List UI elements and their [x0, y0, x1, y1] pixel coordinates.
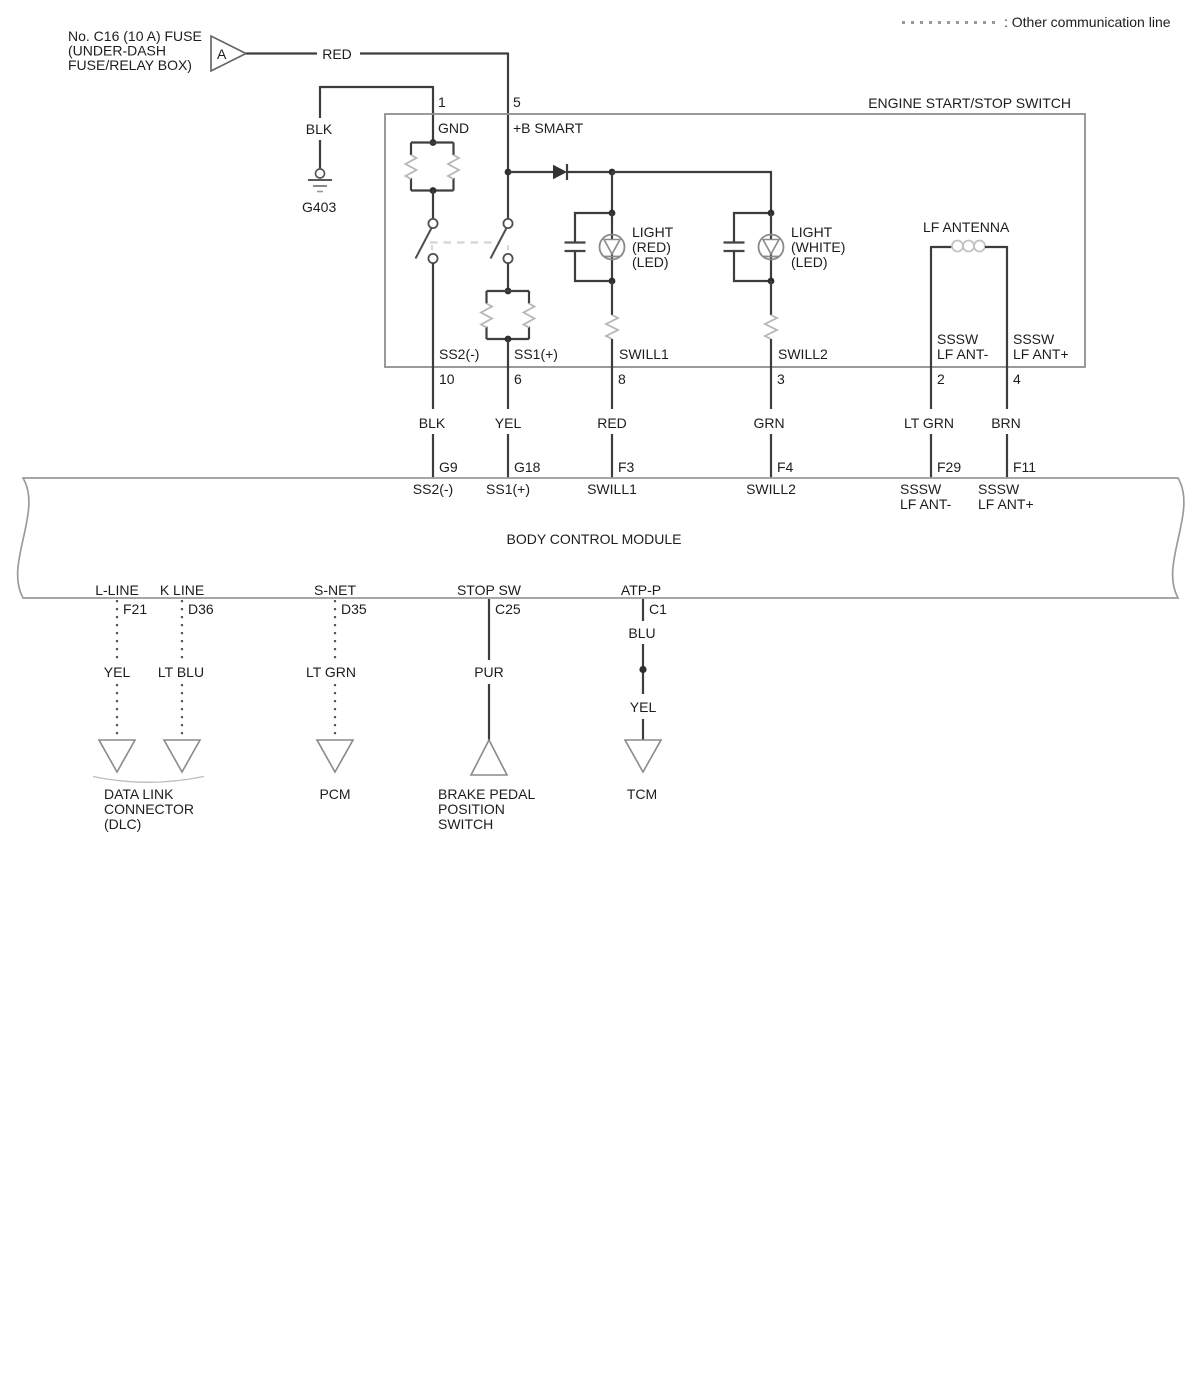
svg-text:PCM: PCM [319, 786, 350, 802]
svg-text:1: 1 [438, 94, 446, 110]
BCM terminal SSSW LF ANT+ [978, 481, 1034, 512]
wire red branch down [611, 172, 613, 213]
svg-text:F21: F21 [123, 601, 147, 617]
connector triangle to brake pedal position switch [471, 740, 507, 775]
svg-text:2: 2 [937, 371, 945, 387]
svg-text:+B SMART: +B SMART [513, 120, 584, 136]
svg-text:F4: F4 [777, 459, 794, 475]
wire BLK vertical upper [319, 86, 321, 118]
svg-text:BRN: BRN [991, 415, 1021, 431]
svg-text:A: A [217, 46, 227, 62]
svg-text:8: 8 [618, 371, 626, 387]
svg-text:F3: F3 [618, 459, 635, 475]
svg-text:G403: G403 [302, 199, 336, 215]
pin label SWILL1 8 [618, 346, 669, 387]
wire resistor pair to switch SS2 [432, 191, 434, 219]
svg-text:GRN: GRN [753, 415, 784, 431]
svg-text:L-LINE: L-LINE [95, 582, 139, 598]
svg-text:D36: D36 [188, 601, 214, 617]
inductor LF antenna coil [931, 241, 1007, 252]
wire ATP-P middle [642, 644, 644, 694]
wire ATP-P lower [642, 719, 644, 740]
svg-text:BLU: BLU [628, 625, 655, 641]
switch SS2 [416, 219, 438, 263]
dotted wire S-NET upper [334, 600, 336, 659]
wire +B to diode [508, 171, 553, 173]
svg-text:SWITCH: SWITCH [438, 816, 493, 832]
svg-text:(LED): (LED) [632, 254, 669, 270]
capacitor C-white parallel branch [724, 213, 772, 281]
svg-text:(DLC): (DLC) [104, 816, 141, 832]
svg-text:POSITION: POSITION [438, 801, 505, 817]
wire LF antenna right leg pin 4 [1006, 246, 1008, 409]
svg-text:SSSW: SSSW [978, 481, 1020, 497]
splice node on ATP-P wire [639, 666, 646, 673]
svg-text:C25: C25 [495, 601, 521, 617]
wire LT GRN lower segment [930, 434, 932, 478]
svg-text:LIGHT: LIGHT [791, 224, 833, 240]
pin label SWILL2 3 [777, 346, 828, 387]
LED light red [600, 210, 625, 285]
wire YEL lower segment [507, 434, 509, 478]
svg-text:YEL: YEL [495, 415, 522, 431]
capacitor C-red parallel branch [565, 213, 613, 281]
pin label SS1(+) 6 [514, 346, 558, 387]
wire diode to red light node [567, 171, 612, 173]
svg-text:LF ANTENNA: LF ANTENNA [923, 219, 1010, 235]
label BRAKE PEDAL POSITION SWITCH [438, 786, 535, 832]
svg-text:G18: G18 [514, 459, 541, 475]
svg-text:SWILL1: SWILL1 [619, 346, 669, 362]
wire pin 1 vertical [432, 86, 434, 142]
body control module band outline [18, 478, 1184, 598]
pin label SSSW LF ANT- 2 [937, 331, 989, 387]
svg-text:YEL: YEL [104, 664, 131, 680]
wire BLK lower segment [432, 434, 434, 478]
svg-text:5: 5 [513, 94, 521, 110]
dotted wire L-LINE upper [116, 600, 118, 659]
svg-text:D35: D35 [341, 601, 367, 617]
svg-text:K LINE: K LINE [160, 582, 204, 598]
svg-text:6: 6 [514, 371, 522, 387]
connector triangle to TCM [625, 740, 661, 772]
svg-text:LT BLU: LT BLU [158, 664, 204, 680]
wire STOP SW lower [488, 684, 490, 740]
svg-text:LIGHT: LIGHT [632, 224, 674, 240]
svg-text:DATA LINK: DATA LINK [104, 786, 174, 802]
svg-text:GND: GND [438, 120, 469, 136]
legend dotted line: other communication line [902, 21, 1001, 24]
wire switch SS1 to resistor pair R-B [507, 263, 509, 291]
svg-text:LF ANT+: LF ANT+ [1013, 346, 1069, 362]
legend text [1004, 14, 1171, 30]
svg-text:C1: C1 [649, 601, 667, 617]
dotted wire K LINE upper [181, 600, 183, 659]
connector A triangle [211, 36, 246, 71]
dotted wire S-NET lower [334, 684, 336, 740]
connector triangle to DLC (L-LINE) [99, 740, 135, 772]
dotted wire K LINE lower [181, 684, 183, 740]
svg-text:SWILL2: SWILL2 [746, 481, 796, 497]
wire RED to pin 5 drop [360, 52, 508, 54]
svg-text:RED: RED [322, 46, 352, 62]
svg-text:SWILL1: SWILL1 [587, 481, 637, 497]
engine start/stop switch enclosure [385, 95, 1085, 367]
svg-text:SS2(-): SS2(-) [439, 346, 479, 362]
resistor pair R-B (SS1 branch) [481, 288, 535, 343]
pin 5 label +B SMART [513, 94, 584, 136]
wire pin 5 vertical drop [507, 53, 509, 220]
svg-text:S-NET: S-NET [314, 582, 356, 598]
svg-text:CONNECTOR: CONNECTOR [104, 801, 194, 817]
wire BRN lower segment [1006, 434, 1008, 478]
wire ATP-P upper [642, 599, 644, 621]
wire BLK vertical lower [319, 140, 321, 169]
svg-text:YEL: YEL [630, 699, 657, 715]
LED light white [759, 210, 784, 285]
dotted wire L-LINE lower [116, 684, 118, 740]
connector triangle to DLC (K LINE) [164, 740, 200, 772]
svg-text:LT GRN: LT GRN [904, 415, 954, 431]
svg-text:3: 3 [777, 371, 785, 387]
pin 1 label GND [438, 94, 469, 136]
svg-text:SS1(+): SS1(+) [514, 346, 558, 362]
node red light branch [609, 169, 616, 176]
svg-text:BODY CONTROL MODULE: BODY CONTROL MODULE [506, 531, 681, 547]
svg-text:SSSW: SSSW [900, 481, 942, 497]
label DATA LINK CONNECTOR (DLC) [104, 786, 194, 832]
BCM terminal SSSW LF ANT- [900, 481, 952, 512]
svg-text:: Other communication line: : Other communication line [1004, 14, 1171, 30]
wire SS1 resistor pair down to pin 6 [507, 339, 509, 409]
svg-text:F11: F11 [1013, 459, 1036, 475]
wire BLK branch horizontal [320, 86, 433, 88]
svg-text:F29: F29 [937, 459, 961, 475]
svg-text:G9: G9 [439, 459, 458, 475]
ground G403 [302, 169, 336, 215]
svg-text:BLK: BLK [419, 415, 446, 431]
brace under DLC triangles [93, 777, 204, 783]
svg-text:BRAKE PEDAL: BRAKE PEDAL [438, 786, 535, 802]
wire from A to RED label [246, 52, 317, 54]
svg-text:SWILL2: SWILL2 [778, 346, 828, 362]
svg-text:TCM: TCM [627, 786, 657, 802]
wire STOP SW upper [488, 599, 490, 660]
connector triangle to PCM [317, 740, 353, 772]
svg-text:4: 4 [1013, 371, 1021, 387]
svg-text:ATP-P: ATP-P [621, 582, 661, 598]
resistor pair R-A (GND branch) [406, 139, 460, 194]
pin label SSSW LF ANT+ 4 [1013, 331, 1069, 387]
svg-text:LF ANT-: LF ANT- [937, 346, 989, 362]
svg-text:RED: RED [597, 415, 627, 431]
wire SS2 switch down to pin 10 [432, 263, 434, 409]
dashed mechanical link between switches [430, 243, 508, 253]
svg-text:LF ANT+: LF ANT+ [978, 496, 1034, 512]
fuse label No. C16 (10 A) FUSE [68, 28, 202, 73]
resistor white branch [765, 281, 777, 409]
wire LF antenna left leg pin 2 [930, 246, 932, 409]
svg-text:STOP SW: STOP SW [457, 582, 522, 598]
svg-text:SS1(+): SS1(+) [486, 481, 530, 497]
svg-text:LF ANT-: LF ANT- [900, 496, 952, 512]
svg-text:BLK: BLK [306, 121, 333, 137]
svg-text:(LED): (LED) [791, 254, 828, 270]
svg-text:LT GRN: LT GRN [306, 664, 356, 680]
svg-text:SSSW: SSSW [1013, 331, 1055, 347]
svg-text:(RED): (RED) [632, 239, 671, 255]
label LIGHT (RED) (LED) [632, 224, 674, 270]
wire to white light branch corner [612, 171, 772, 173]
label LIGHT (WHITE) (LED) [791, 224, 845, 270]
svg-text:SS2(-): SS2(-) [413, 481, 453, 497]
svg-text:(WHITE): (WHITE) [791, 239, 845, 255]
pin label SS2(-) 10 [439, 346, 479, 387]
svg-text:ENGINE START/STOP SWITCH: ENGINE START/STOP SWITCH [868, 95, 1071, 111]
wire corner down to white light [770, 172, 772, 213]
resistor red branch [606, 281, 618, 409]
wire GRN lower segment [770, 434, 772, 478]
svg-text:PUR: PUR [474, 664, 504, 680]
wire RED lower segment [611, 434, 613, 478]
svg-text:SSSW: SSSW [937, 331, 979, 347]
svg-text:FUSE/RELAY BOX): FUSE/RELAY BOX) [68, 57, 192, 73]
node +B junction to diode [505, 169, 512, 176]
switch SS1 [491, 219, 513, 263]
diode D1 [553, 164, 567, 180]
svg-text:10: 10 [439, 371, 455, 387]
